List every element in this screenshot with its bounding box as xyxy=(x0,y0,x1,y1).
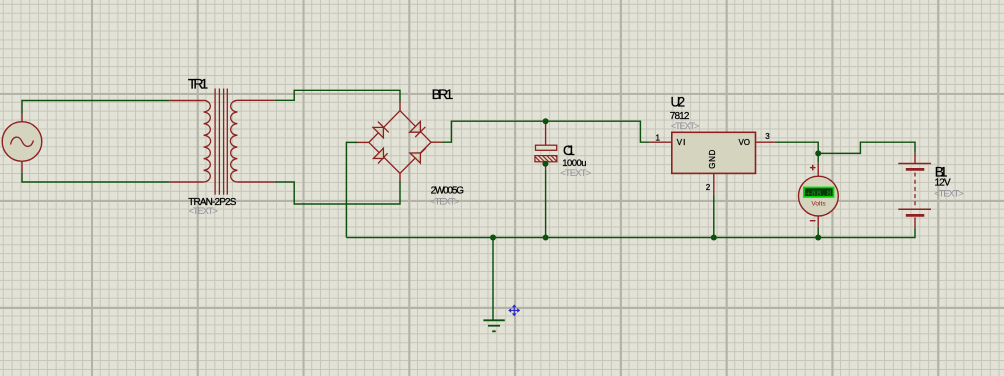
svg-text:<TEXT>: <TEXT> xyxy=(671,121,700,132)
svg-text:U2: U2 xyxy=(671,95,686,110)
svg-text:<TEXT>: <TEXT> xyxy=(430,196,460,207)
svg-text:2W005G: 2W005G xyxy=(431,185,465,196)
svg-text:TR1: TR1 xyxy=(188,75,209,91)
svg-text:GND: GND xyxy=(708,149,717,168)
svg-text:3: 3 xyxy=(765,132,770,141)
svg-text:<TEXT>: <TEXT> xyxy=(934,189,964,200)
svg-text:12V: 12V xyxy=(935,178,952,189)
svg-text:<TEXT>: <TEXT> xyxy=(189,206,219,217)
svg-text:VO: VO xyxy=(739,138,751,147)
svg-text:C1: C1 xyxy=(563,142,575,158)
svg-text:<TEXT>: <TEXT> xyxy=(560,168,591,179)
svg-text:2: 2 xyxy=(706,183,711,192)
svg-text:1: 1 xyxy=(656,133,661,142)
svg-text:+88.8: +88.8 xyxy=(806,189,832,199)
svg-text:Volts: Volts xyxy=(811,201,826,208)
svg-text:BR1: BR1 xyxy=(432,86,454,102)
svg-text:VI: VI xyxy=(677,138,686,147)
